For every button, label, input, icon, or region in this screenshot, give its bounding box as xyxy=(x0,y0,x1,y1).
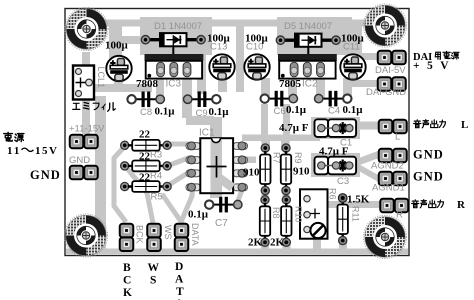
wire LCL1 vertical xyxy=(82,52,90,136)
wire IC2 pin1 to C6 xyxy=(288,72,297,99)
svg-text:0.1μ: 0.1μ xyxy=(286,104,307,116)
wire drop to C12 xyxy=(109,20,122,58)
svg-text:C7: C7 xyxy=(215,218,228,229)
capacitor C12 100u xyxy=(106,56,131,81)
mounting hole top-right xyxy=(363,4,406,47)
svg-text:A: A xyxy=(175,274,184,286)
svg-text:11: 11 xyxy=(7,145,21,157)
capacitor C9 0.1u xyxy=(184,91,221,107)
header AGND1 xyxy=(379,172,407,186)
svg-text:R6: R6 xyxy=(328,188,338,200)
wire to DAI-GND xyxy=(344,80,379,87)
svg-text:22: 22 xyxy=(139,151,151,163)
wire drop to R7 xyxy=(262,139,271,150)
svg-text:R7: R7 xyxy=(272,152,282,164)
svg-text:BCK: BCK xyxy=(135,225,145,244)
wire DATA to IC1 xyxy=(181,185,193,222)
node label WS xyxy=(148,262,160,287)
header WS xyxy=(147,224,161,251)
svg-text:1.5K: 1.5K xyxy=(347,194,370,206)
svg-text:C: C xyxy=(123,275,131,287)
capacitor C8 0.1u xyxy=(127,92,164,108)
svg-text:DATA: DATA xyxy=(190,223,200,246)
wire IC1 pin7 stub xyxy=(242,157,256,164)
header DAI-GND xyxy=(378,77,406,91)
header R out xyxy=(380,199,408,213)
wire C12 down xyxy=(114,78,123,90)
regulator IC2 7805 xyxy=(278,54,337,79)
svg-text:R11: R11 xyxy=(351,206,361,222)
capacitor C13 100u xyxy=(209,54,234,79)
wire trimmer to R header xyxy=(326,201,383,208)
svg-text:GND: GND xyxy=(30,168,61,182)
wire BCK to R3 xyxy=(114,146,126,222)
wire left power rail xyxy=(95,96,106,252)
capacitor C7 0.1u xyxy=(205,197,242,213)
svg-text:+11-15V: +11-15V xyxy=(69,124,105,135)
svg-text:910: 910 xyxy=(243,167,260,179)
header DATA xyxy=(175,224,189,251)
resistor R4 22 xyxy=(121,161,172,172)
board outline xyxy=(65,9,409,256)
header J2 GND left xyxy=(70,166,98,180)
wire IC3 pin3 to C9 xyxy=(182,70,192,118)
svg-text:IC3: IC3 xyxy=(166,79,182,90)
svg-text:R: R xyxy=(457,199,466,211)
wire C6 down xyxy=(261,104,268,142)
svg-text:GND: GND xyxy=(69,155,90,166)
svg-text:DAI-5V: DAI-5V xyxy=(375,65,406,76)
wire R5 to IC1 pin3 xyxy=(167,171,191,186)
wire R8 to ground bus xyxy=(261,243,269,250)
wire LCL1 to IC3 xyxy=(92,84,152,92)
svg-text:C10: C10 xyxy=(246,42,263,53)
mounting hole bottom-left xyxy=(64,214,107,257)
svg-text:D1 1N4007: D1 1N4007 xyxy=(154,21,202,32)
header DAI-5V xyxy=(378,51,406,65)
svg-text:AGND2: AGND2 xyxy=(371,161,404,172)
svg-text:IC2: IC2 xyxy=(302,79,318,90)
svg-text:4.7μ F: 4.7μ F xyxy=(279,122,309,134)
wire under C3 xyxy=(311,153,360,177)
svg-text:B: B xyxy=(123,262,131,274)
wire D1 right down xyxy=(197,46,206,94)
svg-text:WS: WS xyxy=(163,225,173,240)
wire mid vertical xyxy=(236,20,244,92)
svg-text:D: D xyxy=(175,261,183,273)
wire bottom ground bus xyxy=(66,249,408,255)
svg-text:100μ: 100μ xyxy=(105,40,129,52)
wire IC3 pin1 to C8 xyxy=(156,72,164,99)
trimmer VR1 xyxy=(300,189,328,238)
svg-text:C6: C6 xyxy=(274,106,286,117)
wire C13 down xyxy=(218,75,227,92)
capacitor C3 4.7uF xyxy=(315,157,357,175)
wire under D5 xyxy=(277,17,352,55)
wire trimmer to ground bus xyxy=(313,238,321,251)
svg-text:R4: R4 xyxy=(150,171,162,182)
wire C10 down to C6 xyxy=(261,78,270,99)
svg-text:R9: R9 xyxy=(293,152,303,164)
svg-text:0.1μ: 0.1μ xyxy=(209,106,230,118)
mounting hole bottom-right xyxy=(363,215,406,258)
svg-text:R10: R10 xyxy=(294,206,304,223)
resistor R8 2K xyxy=(260,196,270,247)
node label audio out R xyxy=(412,200,444,208)
wire R9 to R10 xyxy=(283,189,290,203)
header J1 +11-15V xyxy=(70,135,98,149)
wire R3 to IC1 pin1 xyxy=(166,142,194,147)
header AGND2 xyxy=(379,149,407,163)
svg-text:L: L xyxy=(395,132,400,143)
wire R10 to ground bus xyxy=(283,243,291,250)
svg-text:0.1μ: 0.1μ xyxy=(343,104,364,116)
svg-text:2K: 2K xyxy=(248,237,263,249)
wire C7 to IC1 pin5 xyxy=(236,190,242,206)
resistor R3 22 xyxy=(121,140,172,151)
label emifil xyxy=(73,103,116,112)
wire IC1 vcc rail xyxy=(242,135,320,142)
svg-text:DAI-GND: DAI-GND xyxy=(366,87,406,98)
EMI filter LCL1 xyxy=(73,66,94,100)
svg-text:C3: C3 xyxy=(337,176,349,187)
capacitor C11 100u xyxy=(340,54,365,79)
wire R5 to DATA xyxy=(162,194,184,226)
wire through IC1 xyxy=(210,117,222,198)
wire C12 to D1 xyxy=(118,36,144,44)
node label power 11-15V xyxy=(4,132,24,141)
svg-text:C9: C9 xyxy=(196,108,208,119)
regulator IC3 7808 xyxy=(145,54,204,79)
pad node R11 top xyxy=(338,194,347,203)
wire C3 to AGND2 xyxy=(358,154,381,163)
wire R7 to R8 xyxy=(262,189,269,203)
wire drop to C11 xyxy=(352,20,362,58)
IC U1 DAC xyxy=(186,138,248,193)
svg-text:7808: 7808 xyxy=(136,78,159,90)
svg-text:W: W xyxy=(148,262,160,274)
svg-text:15V: 15V xyxy=(35,145,58,157)
wire R4 to IC1 pin2 xyxy=(167,157,191,166)
svg-text:7805: 7805 xyxy=(279,78,302,90)
capacitor C1 4.7uF xyxy=(315,119,357,137)
svg-text:22: 22 xyxy=(139,172,151,184)
resistor R9 910 xyxy=(281,144,291,195)
header BCK xyxy=(120,224,134,251)
wire R11 to ground bus xyxy=(339,242,347,250)
diode D5 xyxy=(276,34,340,56)
svg-text:22: 22 xyxy=(139,129,151,141)
svg-text:L: L xyxy=(461,119,468,131)
resistor R10 2K xyxy=(281,196,291,247)
svg-text:C13: C13 xyxy=(210,42,227,53)
wire IC2 pin3 to C4 xyxy=(316,72,325,99)
wire under D1 xyxy=(140,17,212,55)
wire WS to R4 xyxy=(126,167,153,223)
header L out xyxy=(379,120,407,134)
resistor R11 1.5K xyxy=(338,194,348,245)
svg-text:+5V: +5V xyxy=(413,60,456,72)
svg-text:K: K xyxy=(123,287,132,299)
resistor R5 22 xyxy=(121,181,172,192)
svg-text:C8: C8 xyxy=(140,107,152,118)
svg-text:4.7μ F: 4.7μ F xyxy=(319,146,349,158)
diode D1 xyxy=(141,33,205,55)
wire C1 to L header xyxy=(354,122,381,130)
svg-text:D5 1N4007: D5 1N4007 xyxy=(284,21,332,32)
svg-text:R8: R8 xyxy=(271,207,281,219)
mounting hole top-left xyxy=(65,7,108,50)
svg-text:GND: GND xyxy=(413,170,444,184)
svg-text:LCL1: LCL1 xyxy=(96,67,106,89)
svg-text:S: S xyxy=(150,275,156,287)
svg-text:AGND1: AGND1 xyxy=(372,183,405,194)
capacitor C10 100u xyxy=(244,54,269,79)
wire drop to R9 xyxy=(281,139,290,150)
svg-text:0.1μ: 0.1μ xyxy=(188,209,209,221)
svg-text:C11: C11 xyxy=(343,42,360,53)
resistor R7 910 xyxy=(260,144,270,195)
svg-text:C4: C4 xyxy=(328,106,340,117)
wire C9 elbow xyxy=(186,116,214,125)
svg-text:R3: R3 xyxy=(150,150,162,161)
svg-text:910: 910 xyxy=(293,166,310,178)
svg-text:2K: 2K xyxy=(270,237,285,249)
svg-text:T: T xyxy=(176,286,184,298)
capacitor C4 0.1u xyxy=(315,91,352,107)
svg-text:GND: GND xyxy=(413,148,444,162)
svg-text:IC1: IC1 xyxy=(199,128,215,139)
wire C3 to AGND1 xyxy=(356,166,381,180)
svg-text:R5: R5 xyxy=(151,192,163,203)
svg-text:0.1μ: 0.1μ xyxy=(155,106,176,118)
wire top bus xyxy=(100,20,378,27)
node label BCK xyxy=(123,262,132,299)
node label DATA xyxy=(175,261,184,300)
wire to DAI-5V xyxy=(350,53,379,60)
node label audio out L xyxy=(414,120,446,128)
wire C11 down to C4 xyxy=(343,78,352,98)
capacitor C6 0.1u xyxy=(261,91,298,107)
wire C4 down to R9 xyxy=(283,104,290,142)
wire under C1 xyxy=(311,117,360,139)
svg-text:R: R xyxy=(396,210,403,221)
